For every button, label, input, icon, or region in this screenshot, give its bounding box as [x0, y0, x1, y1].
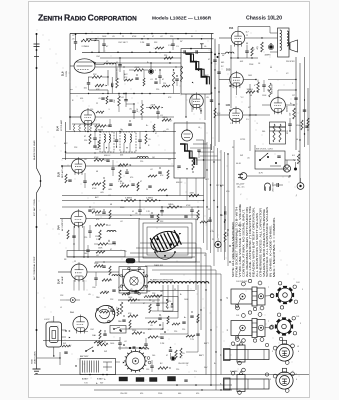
- T1 left parts: [172, 66, 182, 94]
- mid extra parts 2: [148, 167, 169, 191]
- cap c5: [156, 108, 162, 120]
- candohm block: [270, 122, 290, 144]
- cap c4: [129, 104, 136, 119]
- socket box A: [119, 267, 147, 294]
- parts above P2: [129, 347, 149, 349]
- extra mid parts: [150, 212, 211, 223]
- volume control rotor: [148, 228, 182, 255]
- caps left of boxes: [84, 131, 97, 146]
- bus parts 2: [206, 87, 221, 118]
- svg-text:.1: .1: [186, 365, 188, 367]
- wire v10 row: [60, 218, 140, 220]
- resistor Ravc3: [167, 204, 179, 208]
- wire out bus 3: [304, 57, 306, 147]
- cluster y241: [94, 240, 116, 249]
- svg-text:.02: .02: [152, 301, 155, 303]
- svg-text:68: 68: [96, 171, 98, 173]
- labels right column: [236, 35, 300, 197]
- svg-text:470K: 470K: [94, 157, 99, 159]
- svg-text:117: 117: [292, 95, 295, 97]
- notes side symbols: [224, 206, 230, 252]
- svg-text:.05: .05: [130, 289, 133, 291]
- cap avc2: [160, 207, 163, 216]
- wire top bus 2: [86, 38, 214, 40]
- IF socket top 1: [273, 340, 294, 364]
- svg-text:1U4: 1U4: [57, 279, 61, 284]
- node ant mid2: [36, 226, 38, 228]
- svg-text:READING WITH BATTERY OPERATION: READING WITH BATTERY OPERATION.: [253, 206, 256, 277]
- svg-text:90*: 90*: [222, 55, 225, 57]
- svg-text:AVC: AVC: [95, 196, 99, 199]
- osc trimmer: [112, 77, 113, 94]
- svg-text:10: 10: [120, 129, 122, 131]
- svg-text:420: 420: [196, 393, 199, 395]
- svg-text:3.3M: 3.3M: [120, 183, 125, 185]
- svg-text:2: 2: [292, 83, 293, 85]
- wires V5: [217, 114, 256, 116]
- wire bm horiz: [43, 291, 195, 349]
- svg-text:1L6: 1L6: [296, 316, 299, 318]
- svg-text:AC LINE. ASTERISK (*) DENOTES: AC LINE. ASTERISK (*) DENOTES THE: [249, 205, 252, 277]
- svg-text:85: 85: [191, 36, 193, 38]
- label V6: [287, 105, 289, 112]
- svg-text:R20: R20: [287, 131, 289, 134]
- svg-text:117: 117: [246, 32, 249, 34]
- svg-text:BLACK FLEX LEAD: BLACK FLEX LEAD: [33, 140, 36, 160]
- wire v2 row: [69, 116, 174, 118]
- svg-text:SEL: SEL: [262, 131, 266, 133]
- svg-text:.05: .05: [206, 97, 209, 99]
- svg-text:2ND: 2ND: [95, 149, 99, 151]
- bm bottom parts: [176, 380, 222, 391]
- tube V1 1L6 converter: [70, 59, 96, 73]
- cluster right V9 b: [111, 160, 128, 180]
- cluster under V3: [231, 45, 258, 59]
- svg-text:2.2MEG: 2.2MEG: [146, 198, 153, 200]
- svg-text:22: 22: [74, 261, 76, 263]
- svg-text:L7: L7: [295, 374, 297, 376]
- title Zenith Radio Corporation: [38, 13, 137, 23]
- svg-text:150: 150: [166, 307, 169, 309]
- svg-text:IN OHMS. K=1000 OHMS.: IN OHMS. K=1000 OHMS.: [271, 224, 273, 277]
- svg-text:47: 47: [84, 136, 86, 138]
- svg-text:OSC-ANT: OSC-ANT: [232, 344, 241, 347]
- svg-text:1.5: 1.5: [246, 119, 249, 121]
- res bl2: [117, 302, 123, 314]
- svg-text:.05: .05: [166, 129, 169, 131]
- svg-text:47: 47: [208, 59, 210, 61]
- svg-text:05: 05: [132, 211, 134, 213]
- svg-text:33: 33: [146, 189, 148, 191]
- svg-text:2200: 2200: [132, 330, 136, 332]
- gap fill dots: [123, 62, 176, 80]
- res r5: [137, 100, 143, 120]
- svg-text:470: 470: [168, 301, 171, 303]
- tube V9 1U5: [72, 157, 86, 175]
- svg-text:47: 47: [118, 287, 120, 289]
- right bus parts: [294, 89, 309, 140]
- cluster right P2: [169, 347, 182, 361]
- node dots tl: [118, 93, 150, 108]
- wire bundle entries: [190, 140, 221, 160]
- wire out bus 2: [299, 63, 301, 182]
- label V10: [57, 218, 65, 231]
- wires bl misc: [37, 300, 121, 365]
- svg-text:2.2MEG: 2.2MEG: [82, 46, 90, 48]
- IF socket top 2: [273, 368, 294, 392]
- wire bus rt2: [214, 39, 216, 146]
- svg-text:220: 220: [84, 237, 87, 239]
- wire h y215: [95, 214, 200, 216]
- extra dots top: [91, 33, 187, 95]
- res bm9: [158, 367, 171, 370]
- label V5: [226, 104, 231, 107]
- svg-text:6: 6: [298, 351, 299, 353]
- svg-text:220K: 220K: [146, 291, 151, 293]
- svg-text:220: 220: [140, 161, 143, 163]
- wire antenna lead: [37, 33, 41, 369]
- svg-text:.01: .01: [196, 217, 199, 219]
- wire out bus 4: [307, 88, 309, 145]
- svg-text:WAVE SW: WAVE SW: [154, 264, 163, 267]
- right of boxes: [138, 131, 150, 149]
- svg-text:100K: 100K: [102, 36, 107, 38]
- svg-text:PL: PL: [212, 239, 214, 241]
- bus labels 1: [205, 59, 210, 77]
- svg-text:7: 7: [268, 287, 269, 289]
- label ext ant: [33, 198, 36, 216]
- svg-text:1L6: 1L6: [236, 315, 239, 317]
- extra parts bottom mid c: [186, 311, 200, 337]
- svg-text:.1: .1: [108, 109, 110, 111]
- parts x192 y205: [190, 206, 199, 220]
- node m: [119, 57, 160, 94]
- svg-text:1MEG: 1MEG: [162, 117, 168, 119]
- svg-text:1MEG: 1MEG: [168, 204, 174, 206]
- svg-text:35: 35: [232, 147, 234, 149]
- svg-text:BATTERY: BATTERY: [80, 355, 89, 358]
- svg-text:.05: .05: [98, 98, 101, 100]
- svg-text:C1: C1: [72, 35, 74, 37]
- svg-text:220: 220: [170, 36, 173, 38]
- cap mid top: [116, 58, 122, 72]
- svg-text:90*: 90*: [180, 41, 183, 43]
- tube V11: [71, 262, 87, 282]
- svg-text:47: 47: [140, 181, 142, 183]
- svg-text:SW: SW: [240, 155, 243, 157]
- tube V12 1L6: [73, 315, 88, 334]
- svg-text:220: 220: [156, 89, 159, 91]
- svg-text:.01: .01: [108, 195, 111, 197]
- cluster right V9 a: [94, 157, 148, 167]
- svg-text:456 KC: 456 KC: [104, 155, 111, 157]
- labels ps: [247, 158, 264, 175]
- wire h y52: [82, 52, 212, 53]
- svg-text:5: 5: [302, 289, 303, 291]
- v11 pins down: [74, 280, 84, 291]
- battery box: [80, 355, 116, 375]
- cluster right V11 b: [94, 272, 120, 286]
- labels boxes: [101, 130, 123, 158]
- svg-text:3: 3: [300, 323, 301, 325]
- wire v9 row: [61, 165, 174, 167]
- svg-text:.05: .05: [160, 329, 163, 331]
- wire tube to can b: [95, 66, 181, 68]
- label T3: [170, 121, 183, 185]
- svg-text:220: 220: [174, 331, 177, 333]
- title models: [152, 16, 212, 22]
- svg-text:47: 47: [294, 159, 296, 161]
- socket star 1: [271, 282, 298, 310]
- svg-text:ON-OFF: ON-OFF: [120, 393, 128, 395]
- svg-text:2.2M: 2.2M: [140, 42, 145, 44]
- svg-text:45*: 45*: [248, 107, 251, 109]
- label V4: [226, 69, 231, 72]
- svg-text:AC - DC: AC - DC: [238, 186, 246, 189]
- top band labels: [102, 36, 193, 47]
- resistor Ravc1: [124, 198, 136, 202]
- svg-text:2.2M: 2.2M: [96, 239, 101, 241]
- svg-text:1200: 1200: [296, 125, 300, 127]
- svg-text:.005: .005: [100, 192, 104, 194]
- transformer T3 2nd IF can: [174, 121, 205, 178]
- svg-text:10M: 10M: [248, 75, 252, 77]
- svg-text:40: 40: [270, 67, 272, 69]
- res bm1: [152, 293, 162, 297]
- wire v4 to bus: [268, 79, 297, 80]
- svg-text:2200: 2200: [158, 393, 162, 395]
- svg-text:40: 40: [298, 151, 300, 153]
- cap bm4: [144, 338, 147, 350]
- svg-text:1L6: 1L6: [61, 71, 65, 76]
- res bm3: [149, 299, 151, 313]
- svg-text:2.2M: 2.2M: [160, 343, 165, 345]
- cluster y252: [86, 245, 105, 258]
- wire h y153: [66, 152, 176, 154]
- volume pot right: [268, 83, 274, 97]
- svg-text:3.3M: 3.3M: [118, 181, 123, 183]
- battery box labels: [82, 374, 104, 385]
- svg-text:VOL: VOL: [226, 191, 230, 193]
- wire h y207: [62, 206, 204, 208]
- svg-text:68: 68: [250, 95, 252, 97]
- res r7: [162, 117, 171, 121]
- dial lamp: [283, 160, 290, 172]
- IF can side 1: [220, 339, 269, 365]
- svg-text:22: 22: [122, 36, 124, 38]
- svg-text:PL: PL: [204, 255, 206, 257]
- svg-text:220: 220: [176, 369, 179, 371]
- svg-text:LEAD CONN: LEAD CONN: [34, 351, 37, 364]
- svg-text:L9: L9: [143, 36, 145, 38]
- wire bus rt1: [211, 34, 213, 151]
- svg-text:Models L1082E — L1086R: Models L1082E — L1086R: [152, 16, 212, 22]
- socket side view 2: [227, 311, 274, 342]
- arrows bm: [159, 322, 166, 333]
- labels under V3: [237, 57, 254, 66]
- electrolytic C30: [265, 43, 274, 57]
- svg-text:SW: SW: [63, 343, 66, 345]
- svg-text:PAD: PAD: [118, 320, 122, 323]
- svg-text:.05: .05: [150, 325, 153, 327]
- svg-text:.05: .05: [112, 36, 115, 38]
- row y186 parts: [120, 182, 139, 191]
- res r6: [150, 105, 163, 109]
- svg-text:B BATT: B BATT: [97, 378, 104, 381]
- dark node ps: [294, 162, 297, 171]
- svg-text:.1: .1: [256, 123, 258, 125]
- svg-text:AVC: AVC: [205, 74, 209, 77]
- wire bundle corners: [130, 243, 221, 390]
- res right V6: [290, 108, 296, 119]
- dark label 2: [136, 378, 144, 382]
- svg-text:470: 470: [96, 219, 99, 221]
- svg-text:DIAL: DIAL: [92, 334, 96, 337]
- label V3: [229, 27, 249, 34]
- svg-text:7.5: 7.5: [194, 371, 197, 373]
- label V2: [56, 119, 64, 131]
- wire bundle verticals: [204, 140, 229, 266]
- svg-text:220: 220: [84, 140, 87, 142]
- wire bus far right: [233, 140, 235, 260]
- svg-text:68: 68: [110, 204, 112, 206]
- socket circle C: [123, 349, 151, 372]
- svg-text:SPECIFIED. ALL RESISTANCE VALU: SPECIFIED. ALL RESISTANCE VALUES: [266, 206, 269, 277]
- capacitor C2: [84, 77, 91, 90]
- title chassis: [246, 16, 282, 22]
- svg-text:.02: .02: [150, 169, 153, 171]
- wire left frame low: [65, 122, 67, 160]
- cap mid3: [158, 70, 164, 84]
- svg-text:AVC: AVC: [124, 73, 128, 76]
- resistor R1: [81, 39, 99, 52]
- pilot lamp PL: [212, 238, 221, 252]
- svg-text:FILAMENT DROPPING RES.: FILAMENT DROPPING RES.: [150, 279, 174, 282]
- svg-text:.01: .01: [150, 79, 153, 81]
- wire h y262: [95, 261, 200, 263]
- svg-text:220K: 220K: [151, 105, 156, 107]
- svg-text:470: 470: [130, 177, 133, 179]
- circle ps2: [297, 178, 304, 189]
- dark label lozenge: [126, 259, 135, 264]
- wire osc links: [88, 70, 108, 94]
- capacitor C1: [72, 33, 78, 50]
- svg-text:470: 470: [163, 131, 166, 133]
- cap ps: [272, 183, 283, 187]
- label V12: [70, 312, 75, 314]
- svg-text:117V: 117V: [259, 173, 264, 175]
- wire h y158: [62, 158, 176, 160]
- svg-text:47: 47: [155, 133, 157, 135]
- svg-text:460: 460: [178, 393, 181, 395]
- capacitor C3: [121, 94, 128, 108]
- wire h y93: [70, 93, 180, 94]
- extra labels sockets: [230, 281, 303, 381]
- svg-text:1U5: 1U5: [226, 69, 231, 72]
- res mid4: [164, 55, 173, 59]
- misc right col: [288, 118, 308, 135]
- socket star 2: [270, 313, 297, 341]
- svg-text:PL: PL: [288, 177, 290, 179]
- svg-text:GND: GND: [32, 359, 34, 364]
- box mid bottom: [110, 326, 126, 334]
- svg-text:150: 150: [146, 369, 149, 371]
- svg-text:A BATT: A BATT: [82, 378, 89, 381]
- svg-text:100K: 100K: [184, 299, 189, 301]
- svg-text:456 KC: 456 KC: [176, 182, 183, 184]
- svg-text:OSC: OSC: [96, 56, 101, 58]
- res bm4: [128, 297, 140, 301]
- wire v11 row: [58, 271, 119, 273]
- svg-text:.02: .02: [124, 341, 127, 343]
- resistor Ravc2: [145, 198, 161, 202]
- svg-text:.05: .05: [148, 139, 151, 141]
- svg-text:47: 47: [143, 303, 145, 305]
- wire bottom frame: [34, 374, 309, 376]
- dark label 4: [168, 377, 176, 382]
- transformer T1 1st IF can: [181, 44, 211, 94]
- wire out bus 1: [295, 57, 297, 150]
- svg-text:1M: 1M: [112, 82, 114, 85]
- parts left of gear: [94, 330, 107, 343]
- svg-text:88: 88: [246, 43, 248, 45]
- svg-text:DET-AVC-AF: DET-AVC-AF: [61, 165, 64, 178]
- svg-text:150K: 150K: [262, 95, 267, 97]
- resistor R4: [114, 94, 120, 113]
- thermal fuse: [265, 182, 275, 192]
- svg-text:SW. ON VOL. CONT.: SW. ON VOL. CONT.: [256, 149, 274, 151]
- switch above batt: [85, 347, 94, 352]
- wire h y131: [66, 131, 176, 132]
- svg-text:.05: .05: [247, 158, 250, 160]
- svg-text:1ST IF AMP: 1ST IF AMP: [60, 119, 63, 131]
- res above batt: [97, 342, 108, 346]
- T1 bottom drops: [185, 94, 205, 120]
- svg-text:220: 220: [164, 55, 167, 57]
- svg-text:100: 100: [152, 355, 155, 357]
- tube V3 3V4 out: [231, 29, 245, 46]
- svg-text:.002: .002: [240, 61, 244, 63]
- svg-text:220: 220: [163, 83, 166, 85]
- svg-text:220: 220: [182, 329, 185, 331]
- socket side view 1: [227, 279, 274, 310]
- res ps1: [294, 154, 300, 164]
- svg-text:LOOP: LOOP: [44, 319, 50, 321]
- switch arcs: [154, 251, 176, 267]
- extra parts bottom mid b: [148, 314, 186, 325]
- res mid2: [112, 72, 118, 88]
- svg-text:456: 456: [120, 155, 123, 157]
- switch box S1: [255, 149, 285, 170]
- svg-text:1ST AUD: 1ST AUD: [216, 184, 224, 187]
- svg-text:1U4 1U5 3V4: 1U4 1U5 3V4: [236, 281, 247, 283]
- svg-text:33: 33: [174, 289, 176, 291]
- svg-text:47: 47: [166, 355, 168, 357]
- svg-text:.02: .02: [120, 221, 123, 223]
- svg-text:Chassis 10L20: Chassis 10L20: [246, 16, 282, 22]
- wire v5 right: [249, 114, 270, 115]
- svg-text:MEG = MEGOHMS. C = COMMON.: MEG = MEGOHMS. C = COMMON.: [274, 216, 276, 277]
- svg-text:220K: 220K: [249, 64, 254, 66]
- bus caps 1: [213, 53, 224, 73]
- svg-text:7: 7: [268, 321, 269, 323]
- svg-text:3.3MEG: 3.3MEG: [125, 198, 132, 200]
- extra parts midleft: [96, 93, 155, 132]
- svg-text:470K: 470K: [186, 205, 191, 207]
- caps between boxes: [115, 132, 118, 148]
- dark label 1: [119, 377, 128, 381]
- tube V6 rect: [271, 96, 286, 114]
